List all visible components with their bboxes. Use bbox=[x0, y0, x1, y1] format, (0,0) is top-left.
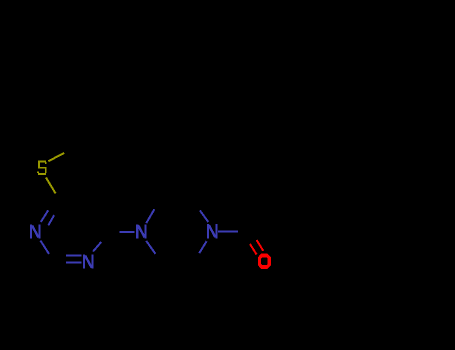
bond N3-C4 bbox=[93, 242, 101, 252]
bond C7a=N1 inner bbox=[48, 215, 54, 225]
bond S-C7a bbox=[46, 178, 56, 194]
bond N(pipR)-CH2 bottom bbox=[199, 241, 206, 253]
atom S (thiophene sulfur) bbox=[37, 160, 47, 175]
bond C7a=N1 main bbox=[41, 210, 48, 222]
bond C4-N(pip) bbox=[120, 231, 135, 233]
atom N1 (pyrimidine) bbox=[30, 224, 41, 238]
atom O (carbonyl oxygen) bbox=[258, 254, 271, 269]
atom N3 (pyrimidine) bbox=[83, 254, 94, 268]
bond N(pipL)-CH2 bottom bbox=[146, 241, 155, 254]
bond S-C6 bbox=[48, 153, 64, 161]
bond C=O main line bbox=[257, 240, 264, 251]
bond C=O outer line bbox=[250, 244, 257, 255]
atom N piperazine left bbox=[136, 224, 147, 238]
bond C2=N3 main bbox=[66, 262, 82, 264]
bond N1-C2 bbox=[40, 241, 49, 254]
bond N(pipR)-C carbonyl bbox=[218, 230, 238, 232]
atom N piperazine right bbox=[207, 224, 218, 238]
bond N(pipL)-CH2 top bbox=[146, 209, 154, 223]
bond N(pipR)-CH2 top bbox=[200, 210, 208, 222]
bond C2=N3 inner bbox=[66, 255, 82, 257]
